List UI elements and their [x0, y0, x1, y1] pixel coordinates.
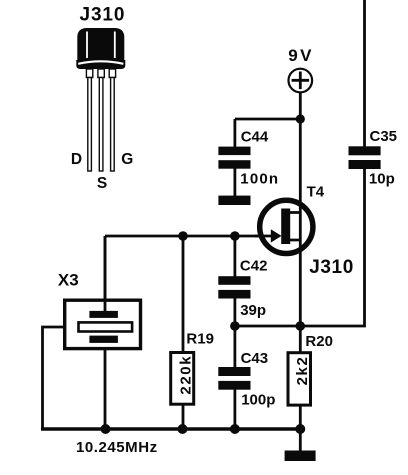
svg-text:R20: R20	[305, 333, 333, 350]
svg-text:C35: C35	[370, 128, 398, 145]
svg-text:C44: C44	[241, 128, 269, 145]
svg-text:X3: X3	[58, 271, 79, 290]
svg-text:J310: J310	[80, 5, 126, 26]
svg-text:D: D	[71, 151, 82, 168]
svg-text:C43: C43	[241, 350, 269, 367]
svg-text:100n: 100n	[240, 171, 279, 188]
svg-text:G: G	[121, 151, 133, 168]
svg-text:S: S	[97, 175, 107, 192]
svg-text:220k: 220k	[177, 355, 194, 395]
svg-text:10.245MHz: 10.245MHz	[76, 439, 158, 456]
svg-text:J310: J310	[309, 257, 354, 278]
svg-text:39p: 39p	[240, 302, 266, 319]
svg-text:2k2: 2k2	[294, 356, 311, 386]
svg-text:10p: 10p	[369, 170, 395, 187]
svg-text:T4: T4	[307, 184, 325, 201]
svg-text:100p: 100p	[241, 392, 275, 409]
svg-text:R19: R19	[186, 331, 214, 348]
svg-text:9V: 9V	[288, 46, 314, 65]
svg-text:C42: C42	[240, 257, 268, 274]
